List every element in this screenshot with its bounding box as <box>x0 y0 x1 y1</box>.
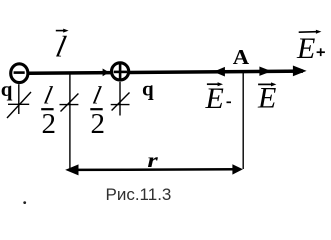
label vector E- (italic E, arrow above, minus subscript) <box>205 82 232 115</box>
fraction l/2 right <box>90 82 105 140</box>
svg-text:E: E <box>205 82 224 115</box>
dimension line r (double-headed arrow) <box>65 164 243 175</box>
dimension tick crossbar at +q <box>111 104 130 106</box>
svg-text:Рис.11.3: Рис.11.3 <box>106 185 172 204</box>
svg-text:E: E <box>257 82 276 115</box>
extension line at point A (down to r line) <box>242 73 244 170</box>
dimension tick slash at +q <box>112 93 130 111</box>
label vector l (italic l with arrow above) <box>53 29 69 64</box>
extension line at dipole centre (down to r line) <box>69 75 71 170</box>
svg-text:q: q <box>1 77 13 101</box>
charge -q (circle with minus sign) <box>11 64 28 83</box>
dimension tick slash at centre <box>61 94 79 112</box>
svg-text:2: 2 <box>91 108 106 140</box>
arrowhead of E on axis at point A (points right) <box>259 67 271 76</box>
dimension tick slash at -q <box>7 92 31 118</box>
dimension tick crossbar at -q <box>8 103 29 105</box>
dimension tick crossbar at centre <box>60 104 79 106</box>
arrowhead of E- on axis at point A (points left) <box>213 67 225 77</box>
charge +q (circle with plus sign) <box>112 63 129 80</box>
wire: dipole axis main horizontal line <box>29 71 303 73</box>
svg-text:E: E <box>296 32 315 65</box>
svg-text:r: r <box>147 150 158 172</box>
svg-text:2: 2 <box>42 108 57 140</box>
svg-text:A: A <box>233 46 250 69</box>
extension line under +q <box>119 82 121 116</box>
fraction l/2 left <box>41 82 56 140</box>
svg-text:q: q <box>142 77 154 101</box>
label vector E+ (italic E, arrow above, plus subscript) <box>296 30 325 65</box>
label vector E (italic E with arrow above) <box>257 82 276 115</box>
arrowhead at right end of axis (points right) <box>293 66 307 77</box>
stray ink dot <box>23 201 26 204</box>
extension line under -q <box>18 84 20 114</box>
arrowhead of vector l on axis (points right into +q) <box>103 69 110 77</box>
